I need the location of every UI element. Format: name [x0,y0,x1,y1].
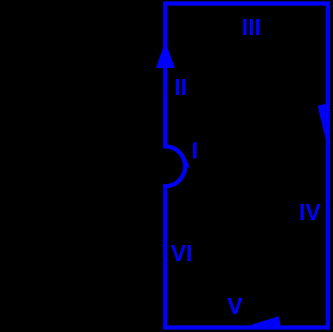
svg-text:III: III [242,14,261,40]
svg-text:II: II [174,74,187,100]
svg-text:V: V [227,293,243,319]
arrowhead on segment II (up arrow, left vertical line) [156,42,175,68]
small arrowhead on semicircle I [186,160,190,168]
svg-text:VI: VI [171,240,193,266]
svg-text:I: I [192,138,198,164]
arrowhead on segment IV (down half-arrow, right vertical line) [318,104,326,139]
svg-text:IV: IV [299,199,321,225]
contour: rectangle with semicircular indentation on left side [165,4,327,328]
arrowhead on segment V (left half-arrow, bottom line) [249,316,281,326]
